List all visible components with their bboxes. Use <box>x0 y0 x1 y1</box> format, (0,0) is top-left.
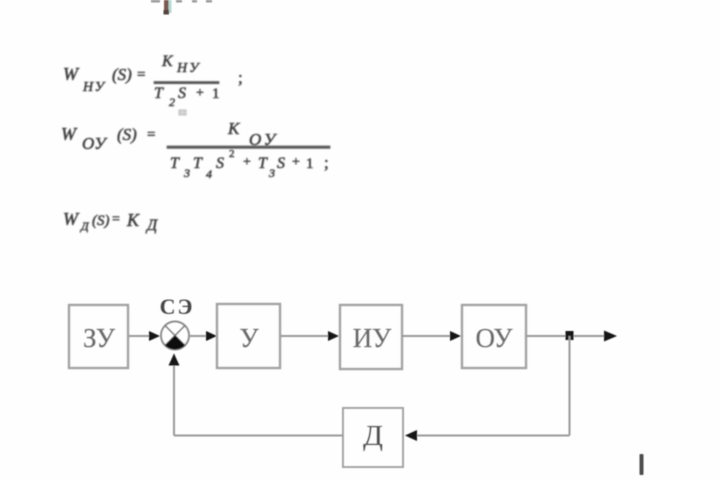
block У <box>217 304 280 368</box>
cross diagonal 2 <box>165 326 185 346</box>
svg-text:К: К <box>161 53 174 70</box>
svg-text:ЗУ: ЗУ <box>83 323 116 353</box>
arrowhead into У <box>206 331 217 341</box>
svg-text:W: W <box>61 124 78 144</box>
remnant dark tip <box>164 10 170 15</box>
block ИУ <box>340 305 402 369</box>
top-edge dash 2 <box>176 0 182 3</box>
svg-text:;: ; <box>238 68 243 87</box>
svg-text:1: 1 <box>212 86 220 102</box>
fraction bar <box>154 82 219 84</box>
svg-text:+: + <box>292 155 300 170</box>
svg-text:=: = <box>137 67 145 83</box>
wire ОУ to output <box>526 335 615 337</box>
svg-text:Д: Д <box>363 420 383 452</box>
output arrowhead <box>604 331 617 342</box>
cut-off formula remnant at top edge <box>151 0 212 15</box>
wire У to ИУ <box>280 335 337 337</box>
svg-text:НУ: НУ <box>82 80 106 95</box>
svg-text:+: + <box>243 155 251 170</box>
top-edge dash 4 <box>206 0 212 3</box>
svg-text:1: 1 <box>306 156 314 172</box>
svg-text:Д: Д <box>145 217 158 234</box>
top-edge dash 1 <box>151 0 160 3</box>
svg-text:4: 4 <box>206 167 212 181</box>
svg-text:(S): (S) <box>92 213 110 229</box>
arrowhead into ИУ <box>328 331 339 341</box>
svg-text:T: T <box>170 155 180 172</box>
arrowhead up into summing junction <box>169 354 180 366</box>
svg-text:2: 2 <box>169 95 175 109</box>
svg-text:К: К <box>227 119 241 138</box>
svg-text:S: S <box>178 85 186 102</box>
feedback wire up to summing junction <box>173 354 175 436</box>
block Д <box>343 408 403 467</box>
cross diagonal 1 <box>165 326 185 346</box>
svg-text:К: К <box>126 210 140 230</box>
block ЗУ <box>69 305 128 368</box>
svg-text:(S): (S) <box>117 125 137 144</box>
feedback wire down from junction <box>569 336 571 436</box>
svg-text:ОУ: ОУ <box>82 134 108 153</box>
svg-text:W: W <box>63 209 80 229</box>
svg-text:+: + <box>196 86 204 101</box>
top-edge dash 3 <box>192 0 197 3</box>
arrowhead into ОУ <box>450 331 461 341</box>
teal chroma artifact <box>169 0 172 13</box>
svg-text:S: S <box>216 155 224 172</box>
block diagram <box>69 294 617 467</box>
svg-text:2: 2 <box>229 148 235 160</box>
vertical stroke remnant <box>164 0 169 14</box>
wire ЗУ to summing junction <box>128 335 158 337</box>
svg-text:;: ; <box>324 153 329 172</box>
svg-text:У: У <box>239 323 259 353</box>
arrowhead into Д <box>405 430 417 441</box>
formula 3: W_Д(S) = K_д <box>63 209 158 234</box>
svg-text:T: T <box>258 155 268 172</box>
svg-text:(S): (S) <box>112 65 132 84</box>
wire ИУ to ОУ <box>402 335 459 337</box>
formula 2: W_ОУ(S) = К_ОУ / (T3 T4 S^2 + T3 S + 1) <box>61 119 330 181</box>
svg-text:=: = <box>147 127 155 143</box>
feedback wire right to Д <box>407 435 570 437</box>
fraction bar <box>167 146 330 148</box>
svg-text:3: 3 <box>183 166 190 180</box>
junction node <box>566 331 574 340</box>
arrowhead into summing junction <box>149 331 160 341</box>
svg-text:3: 3 <box>268 166 275 180</box>
svg-text:T: T <box>154 85 164 102</box>
svg-text:ОУ: ОУ <box>475 323 513 353</box>
svg-text:T: T <box>193 155 203 172</box>
svg-text:ИУ: ИУ <box>353 323 392 353</box>
svg-text:S: S <box>277 155 285 172</box>
formula 1: W_НУ(S) = К_НУ / (T2 S + 1) <box>63 53 243 115</box>
svg-text:W: W <box>63 64 80 84</box>
svg-text:=: = <box>112 212 120 227</box>
block ОУ <box>462 305 526 368</box>
svg-text:СЭ: СЭ <box>160 294 195 319</box>
feedback wire Д to left <box>174 435 343 437</box>
svg-text:Д: Д <box>80 219 90 233</box>
svg-text:НУ: НУ <box>176 61 201 76</box>
summing junction circle <box>161 322 189 350</box>
filled bottom sector <box>165 336 185 350</box>
cursor mark bottom right <box>640 454 644 475</box>
wire summing junction to У <box>189 335 215 337</box>
speck under subscript <box>179 110 186 115</box>
